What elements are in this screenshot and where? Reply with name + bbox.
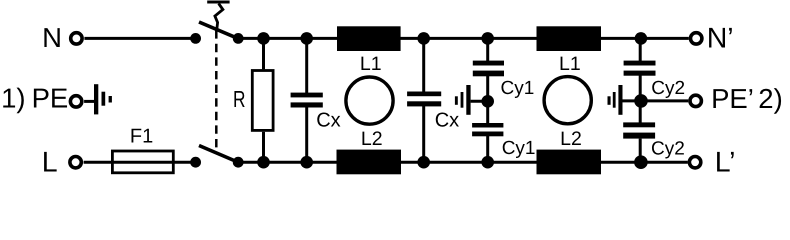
choke 2 core circle <box>544 77 591 124</box>
switch S1b contact dot right <box>233 157 244 168</box>
svg-text:N: N <box>42 22 62 53</box>
svg-text:L1: L1 <box>360 53 382 75</box>
terminal N circle <box>71 33 82 44</box>
terminal N' circle <box>691 33 702 44</box>
fuse F1 body <box>112 151 173 173</box>
wire earth to Cy1 node <box>471 100 488 103</box>
wire R bottom lead <box>262 132 265 162</box>
node junction dot N line at Cy2 <box>635 32 648 45</box>
wire PE terminal to earth symbol <box>84 100 95 103</box>
capacitor Cy2 lower plates <box>623 122 655 138</box>
node junction dot Cy2 midpoint (PE' node) <box>634 94 648 108</box>
svg-text:2): 2) <box>758 83 782 114</box>
capacitor Cx2 plates <box>407 92 441 107</box>
svg-text:Cx: Cx <box>316 109 340 131</box>
wire Cx1 bottom lead <box>305 107 308 162</box>
node junction dot Cy1 midpoint <box>481 95 494 108</box>
wire Cx2 bottom lead <box>422 106 425 162</box>
wire L line from switch to L' terminal <box>238 161 688 164</box>
choke 1 winding L2 block (L line) <box>337 150 402 175</box>
svg-text:PE’: PE’ <box>711 83 754 114</box>
wire Cy1 mid vertical <box>486 76 489 123</box>
node junction dot L line at R <box>257 156 270 169</box>
switch S1b blade <box>199 146 239 163</box>
node junction dot L line at Cx2 <box>417 156 430 169</box>
svg-text:Cx: Cx <box>435 109 459 131</box>
earth symbol at Cy2 node, pointing left <box>608 85 623 115</box>
wire L terminal to fuse and switch contact <box>84 161 196 164</box>
node junction dot N line at Cx2 <box>417 32 430 45</box>
svg-text:R: R <box>233 86 246 112</box>
wire Cy2 top lead <box>639 38 642 61</box>
switch S1a blade <box>199 22 239 39</box>
capacitor Cx1 plates <box>291 93 323 108</box>
node junction dot N line at Cy1 <box>481 32 494 45</box>
svg-text:PE: PE <box>32 83 69 114</box>
wire Cy2 node to PE' terminal <box>641 99 688 102</box>
wire Cy2 bottom lead <box>639 139 642 163</box>
resistor R body <box>252 71 273 131</box>
earth (chassis) symbol at PE, pointing right <box>94 84 112 114</box>
node junction dot L line at Cy2 <box>634 155 648 169</box>
earth symbol at Cy1 node, pointing left <box>455 85 471 115</box>
svg-text:L1: L1 <box>559 53 581 75</box>
svg-text:Cy1: Cy1 <box>502 138 536 159</box>
switch actuator bar <box>207 1 229 4</box>
node junction dot L line at Cy1 <box>481 156 494 169</box>
switch S1a contact dot right <box>233 33 244 44</box>
svg-text:N’: N’ <box>707 23 734 55</box>
wire Cx2 top lead <box>422 38 425 92</box>
wire Cy1 bottom lead <box>486 136 489 162</box>
svg-text:Cy2: Cy2 <box>651 139 685 160</box>
switch mechanical link (dashed) <box>215 30 218 148</box>
wire Cy2 mid vertical <box>639 76 642 123</box>
choke 1 winding L1 block (N line) <box>337 26 401 51</box>
svg-text:Cy2: Cy2 <box>651 78 685 99</box>
svg-text:L2: L2 <box>560 128 582 150</box>
svg-text:L: L <box>42 147 58 176</box>
terminal PE circle <box>70 96 81 107</box>
wire R top lead <box>262 38 265 69</box>
terminal PE' circle <box>690 95 701 106</box>
switch S1b contact dot left (L line) <box>190 157 201 168</box>
svg-text:Cy1: Cy1 <box>501 78 535 99</box>
terminal L' circle <box>689 157 700 168</box>
terminal L circle <box>70 157 81 168</box>
switch S1a contact dot left (N line) <box>190 33 201 44</box>
wire N terminal to switch contact <box>84 37 195 40</box>
capacitor Cy1 lower plates <box>472 123 503 136</box>
choke 2 winding L2 block (L line) <box>537 150 602 175</box>
node junction dot N line at Cx1 <box>300 32 313 45</box>
wire N line from switch to N' terminal <box>238 37 689 40</box>
wire Cx1 top lead <box>305 38 308 93</box>
node junction dot L line at Cx1 <box>300 156 313 169</box>
svg-text:L’: L’ <box>715 147 736 176</box>
svg-text:L2: L2 <box>361 128 383 150</box>
choke 1 core circle <box>346 77 393 124</box>
wire Cy1 top lead <box>486 38 489 61</box>
wire earth to Cy2 node <box>623 99 641 102</box>
capacitor Cy1 upper plates <box>473 61 504 77</box>
svg-text:F1: F1 <box>130 126 153 148</box>
switch actuator spring zigzag <box>215 4 223 29</box>
node junction dot N line at R <box>257 32 270 45</box>
choke 2 winding L1 block (N line) <box>537 26 602 51</box>
svg-text:1): 1) <box>1 83 25 114</box>
capacitor Cy2 upper plates <box>624 61 656 76</box>
